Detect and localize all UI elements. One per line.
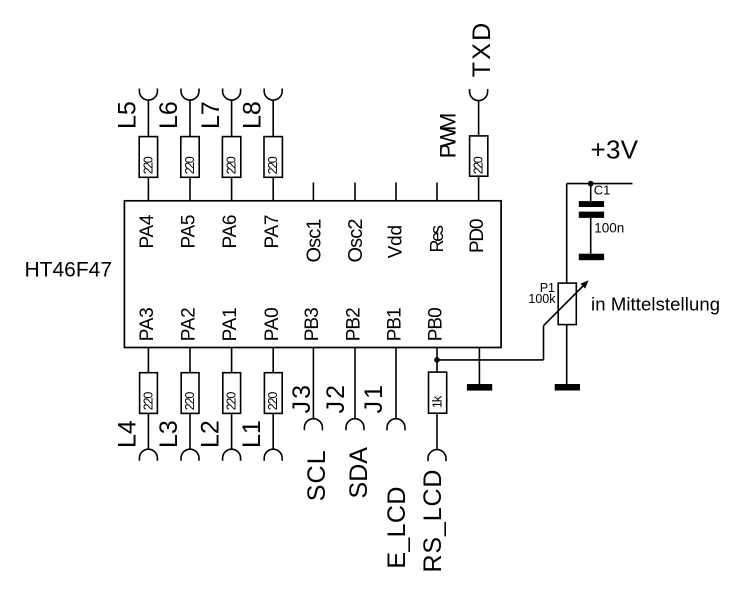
svg-text:J3: J3 (288, 385, 316, 414)
wire P1 bottom to ground (566, 325, 568, 384)
connector L2 (223, 449, 241, 461)
wire +3V rail (567, 183, 633, 185)
wire 1k to RS_LCD connector (436, 413, 438, 449)
resistor 220 (L5 branch) (139, 137, 157, 178)
wire PB0 junction to potentiometer wiper (437, 359, 544, 361)
wire resistor to L2 connector (231, 413, 233, 449)
wire L5 to resistor (147, 100, 149, 137)
svg-text:SDA: SDA (345, 447, 373, 499)
connector L1 (264, 449, 282, 461)
svg-text:L6: L6 (155, 101, 183, 129)
svg-text:L7: L7 (197, 101, 225, 129)
svg-text:Osc2: Osc2 (345, 219, 367, 263)
wire PA5 top pin (189, 177, 191, 201)
svg-text:J1: J1 (360, 385, 388, 414)
wire PA2 bottom pin (189, 348, 191, 373)
wire PA3 bottom pin (147, 348, 149, 373)
capacitor C1 bottom plate (579, 212, 604, 218)
svg-text:TXD: TXD (468, 23, 496, 78)
svg-text:HT46F47: HT46F47 (25, 259, 113, 282)
wire PD0 top pin (478, 176, 480, 201)
svg-text:Vdd: Vdd (386, 225, 407, 259)
wire resistor to L1 connector (272, 413, 274, 449)
svg-text:in Mittelstellung: in Mittelstellung (591, 293, 720, 314)
svg-text:SCL: SCL (303, 450, 331, 501)
connector L6 (181, 89, 199, 101)
svg-text:PA3: PA3 (137, 307, 158, 341)
svg-text:PA2: PA2 (179, 307, 200, 341)
svg-text:PB2: PB2 (344, 307, 365, 341)
resistor 220 (PWM branch) (470, 136, 488, 176)
wire PA1 bottom pin (231, 348, 233, 373)
svg-text:PD0: PD0 (467, 219, 488, 254)
svg-text:+3V: +3V (591, 135, 639, 165)
svg-text:L5: L5 (114, 101, 142, 129)
wire PB1 to J1 (395, 348, 397, 419)
svg-text:PA1: PA1 (220, 307, 241, 341)
connector J1 (E_LCD) (387, 419, 405, 431)
svg-text:220: 220 (225, 392, 239, 411)
wire PB2 to J2 (354, 348, 356, 419)
wire Vdd stub (395, 183, 397, 201)
svg-text:PA6: PA6 (220, 214, 241, 248)
wire L6 to resistor (189, 100, 191, 137)
svg-text:PB3: PB3 (302, 307, 323, 341)
resistor 220 (L2 branch) (223, 373, 241, 414)
svg-text:L2: L2 (197, 420, 225, 448)
svg-text:100n: 100n (594, 220, 624, 235)
wire C1 to ground (590, 218, 592, 254)
connector TXD (470, 89, 488, 101)
resistor 220 (L1 branch) (264, 373, 282, 414)
svg-text:PB1: PB1 (385, 307, 406, 341)
wire PWM resistor to TXD connector (478, 101, 480, 136)
potentiometer P1 wiper arrow shaft (544, 285, 585, 326)
wire PA4 top pin (147, 177, 149, 201)
junction dot PB0 node (434, 357, 440, 363)
wire Res stub (436, 183, 438, 201)
svg-text:L8: L8 (238, 101, 266, 129)
svg-text:Osc1: Osc1 (303, 219, 325, 263)
potentiometer P1 wiper arrowhead (580, 280, 588, 288)
svg-text:PB0: PB0 (426, 307, 447, 341)
wire PA0 bottom pin (272, 348, 274, 373)
svg-text:PA7: PA7 (262, 215, 283, 249)
wire resistor to L3 connector (189, 413, 191, 449)
connector L8 (264, 89, 282, 101)
svg-text:L3: L3 (155, 420, 183, 448)
wire Osc1 stub (312, 183, 314, 201)
svg-text:J2: J2 (322, 385, 350, 414)
connector L3 (181, 449, 199, 461)
svg-text:PA5: PA5 (179, 215, 200, 249)
svg-text:1k: 1k (429, 395, 444, 408)
junction dot +3V node (588, 181, 594, 187)
wire PA7 top pin (272, 177, 274, 201)
ground below C1 (579, 254, 604, 261)
svg-text:RS_LCD: RS_LCD (419, 470, 447, 573)
wire wiper riser (543, 326, 545, 360)
wire PA6 top pin (231, 177, 233, 201)
svg-text:PWM: PWM (436, 113, 461, 159)
wire PB0 bottom pin to junction (436, 348, 438, 373)
svg-text:220: 220 (225, 156, 239, 174)
capacitor C1 top plate (579, 201, 604, 207)
ground below P1 (555, 384, 580, 391)
connector L5 (139, 89, 157, 101)
svg-text:PA4: PA4 (137, 214, 158, 248)
svg-text:220: 220 (183, 156, 197, 174)
connector L7 (223, 89, 241, 101)
resistor 220 (L7 branch) (222, 137, 240, 178)
svg-text:C1: C1 (594, 183, 611, 198)
potentiometer P1 body (558, 283, 576, 325)
resistor 1k (429, 372, 447, 413)
svg-text:220: 220 (266, 156, 280, 174)
connector J2 (SDA) (346, 419, 364, 431)
wire ground pin below IC (478, 348, 480, 385)
svg-text:PA0: PA0 (262, 307, 283, 341)
wire L8 to resistor (272, 100, 274, 137)
connector J3 (SCL) (304, 419, 322, 431)
svg-text:220: 220 (141, 392, 155, 411)
wire PB3 to J3 (312, 348, 314, 419)
svg-text:L4: L4 (113, 420, 141, 448)
wire rail to C1 (590, 184, 592, 202)
svg-text:220: 220 (472, 156, 486, 174)
svg-text:220: 220 (266, 392, 280, 411)
resistor 220 (L6 branch) (181, 137, 199, 178)
resistor 220 (L3 branch) (181, 373, 199, 414)
ground below IC pin (467, 384, 492, 391)
wire resistor to L4 connector (147, 413, 149, 449)
svg-text:L1: L1 (238, 420, 266, 448)
resistor 220 (L8 branch) (264, 137, 282, 178)
svg-text:220: 220 (141, 156, 155, 174)
connector L4 (139, 449, 157, 460)
connector RS_LCD (428, 450, 446, 462)
op-amp U1 HT46F47 IC body (124, 201, 501, 348)
svg-text:100k: 100k (528, 292, 556, 306)
svg-text:Res: Res (427, 225, 447, 253)
wire rail to potentiometer P1 top (566, 184, 568, 284)
wire Osc2 stub (354, 183, 356, 201)
svg-text:E_LCD: E_LCD (383, 487, 411, 569)
wire L7 to resistor (231, 100, 233, 137)
resistor 220 (L4 branch) (140, 373, 158, 414)
svg-text:220: 220 (183, 392, 197, 411)
